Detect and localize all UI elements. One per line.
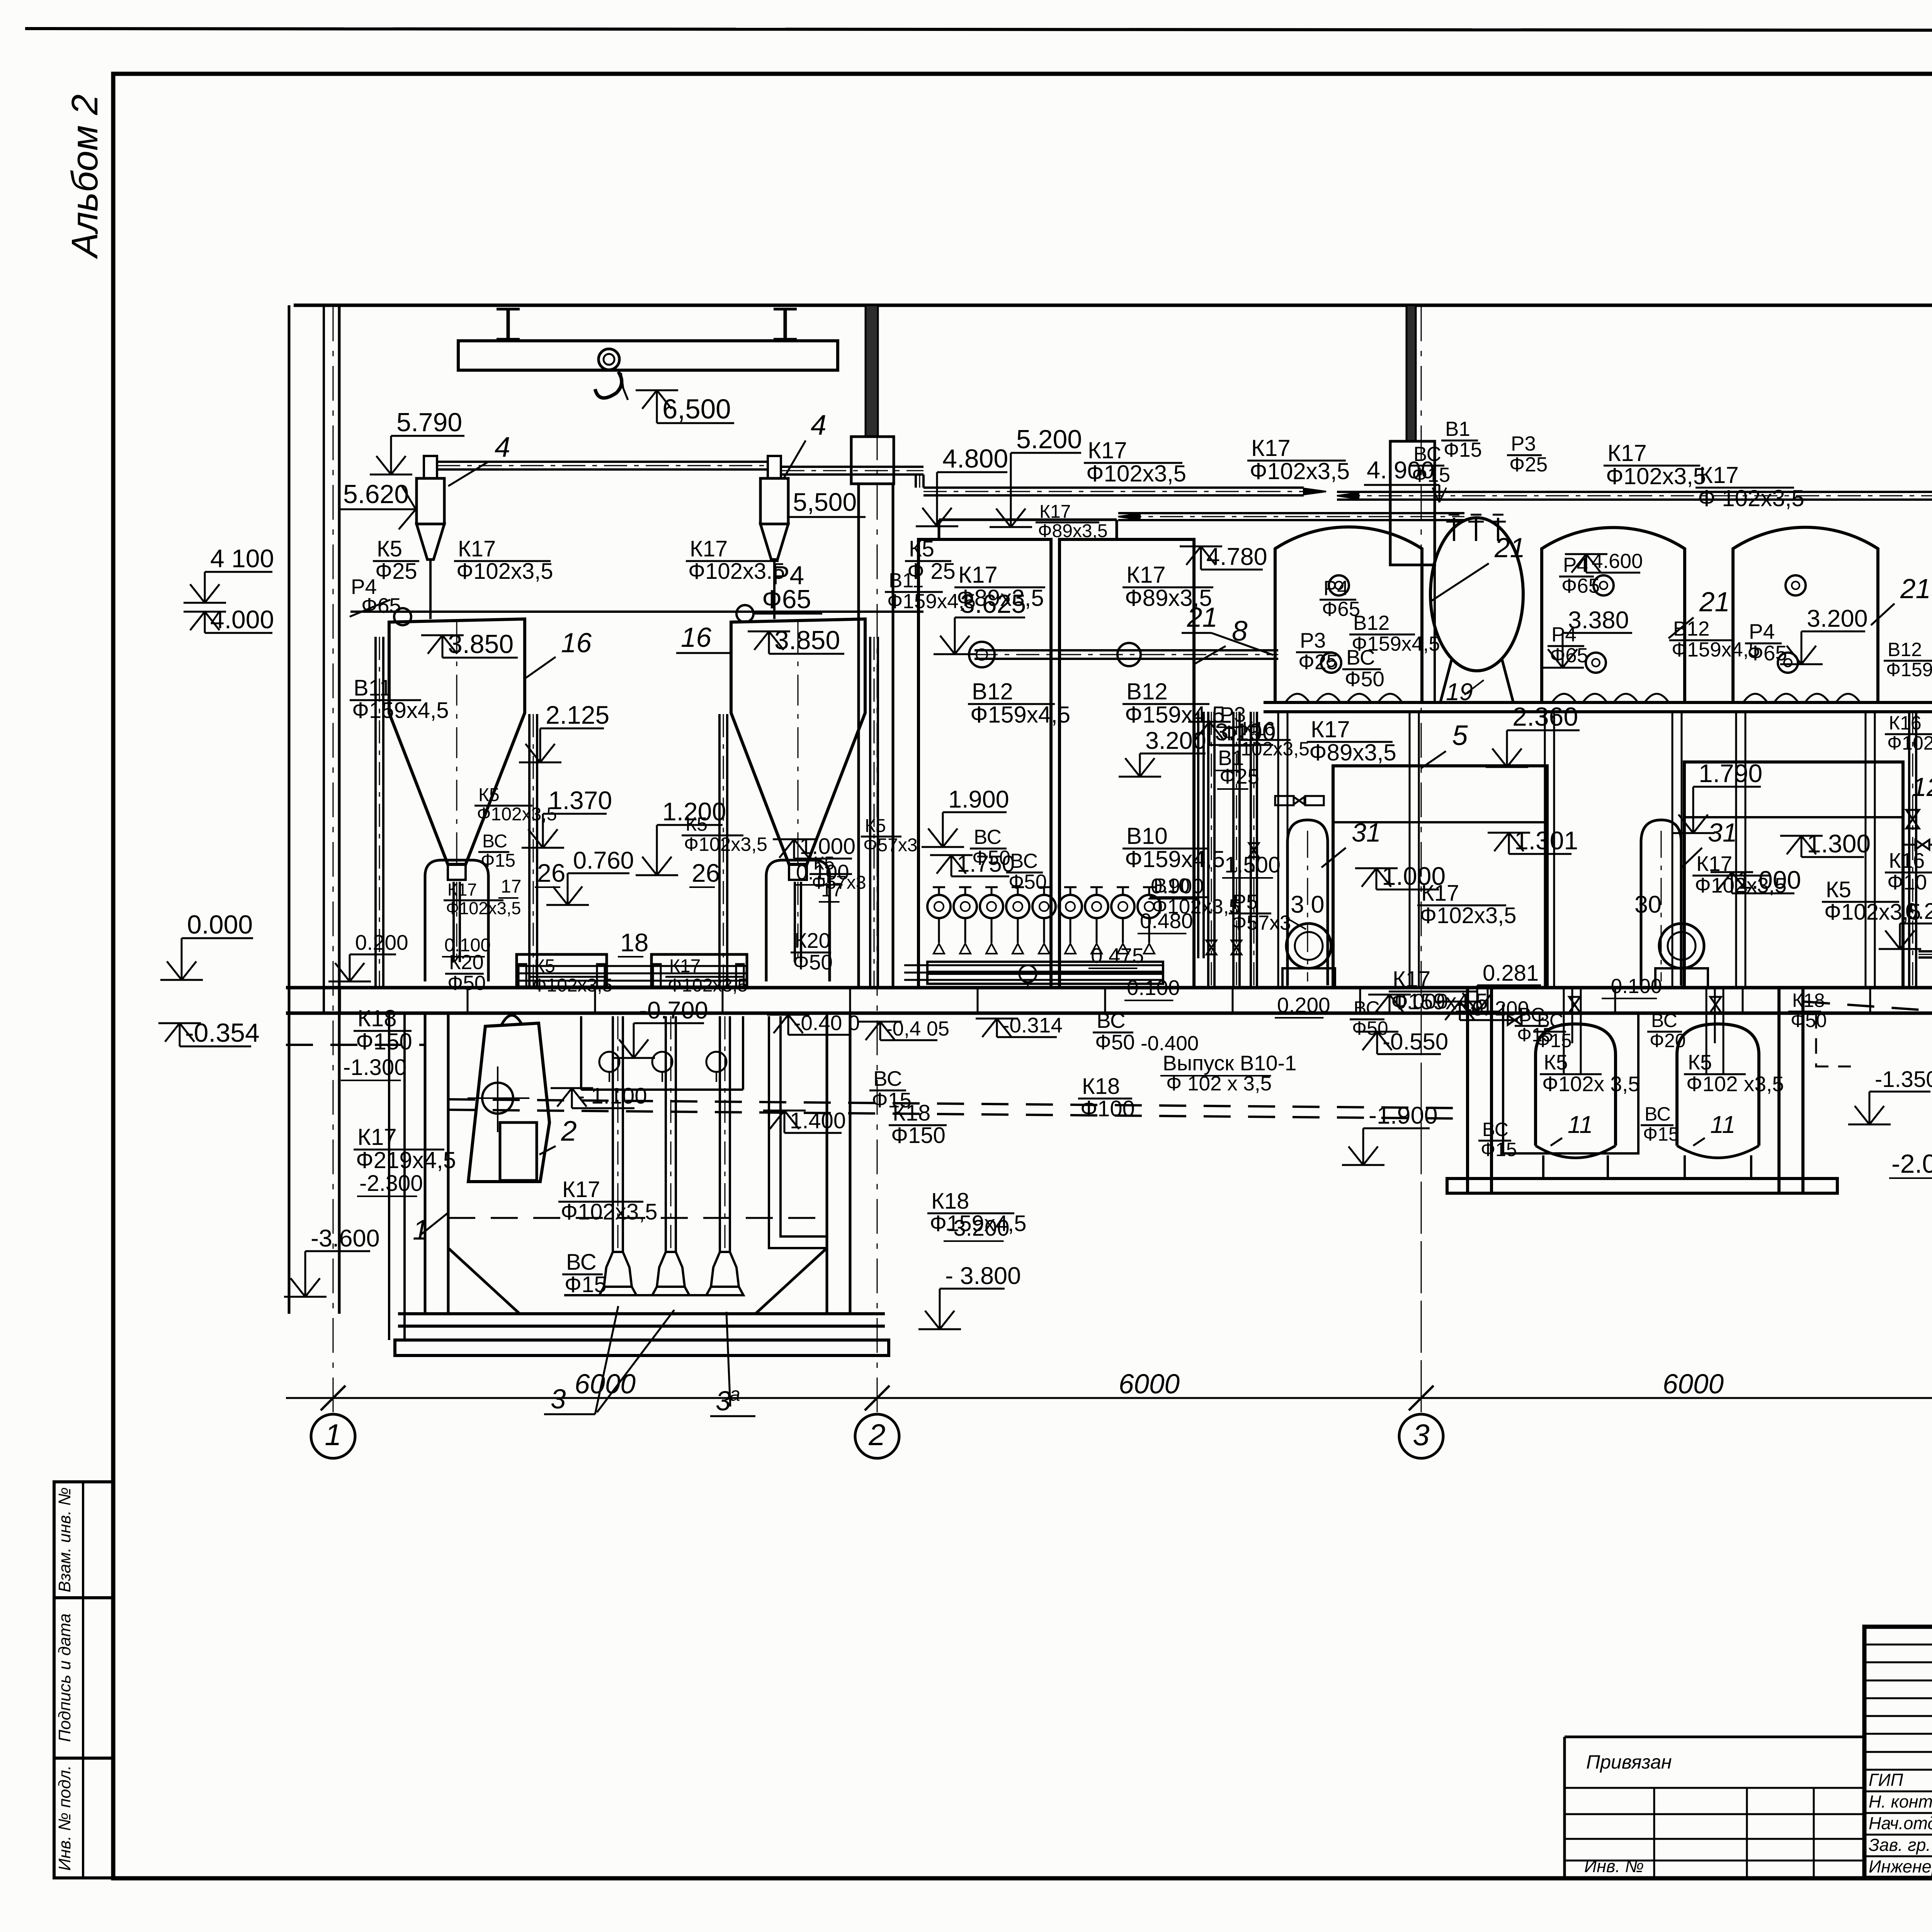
svg-text:Ф159х4,5: Ф159х4,5 [352,698,449,723]
svg-text:Ф102х3,5: Ф102х3,5 [1887,732,1932,754]
riser valves [1906,810,1919,828]
underground tank 11 #1 [1536,1024,1616,1146]
riser beside tank8 [1197,712,1199,958]
risers right of axis4 [1908,712,1910,988]
svg-text:ВС: ВС [1354,997,1380,1019]
svg-text:Ф102х 3,5: Ф102х 3,5 [1542,1072,1640,1096]
svg-text:5: 5 [1452,720,1468,751]
filter tank 21 #1 [1275,527,1422,704]
pipe bundle right [904,964,1163,966]
svg-text:Ф25: Ф25 [1509,453,1548,476]
svg-text:К17: К17 [1699,462,1739,488]
buried line right [1803,1002,1932,1020]
hydro vessel 31 #2 [1641,820,1681,985]
K16 fitting into basin 12 [1915,840,1929,849]
svg-text:Ф50: Ф50 [1095,1030,1135,1054]
svg-text:Ф25: Ф25 [1298,650,1338,674]
axis1 foundation [388,1013,390,1340]
svg-text:-3.200: -3.200 [946,1216,1009,1241]
svg-text:Ф50: Ф50 [1791,1010,1827,1031]
svg-text:3: 3 [716,1386,731,1417]
svg-text:Ф15: Ф15 [1444,439,1482,461]
pit floor lines [564,1294,743,1296]
svg-text:21: 21 [1699,587,1730,617]
svg-text:К5: К5 [478,785,500,805]
tank 11 dip tubes [1563,988,1565,1074]
svg-text:1.900: 1.900 [948,786,1009,813]
crane hangers [507,309,510,339]
K16 inline fittings [1275,796,1294,805]
svg-text:Ф25: Ф25 [375,559,417,584]
svg-text:В12: В12 [1673,617,1709,640]
tank 16 outlet box [789,864,807,880]
settler tank 16 #1 [389,619,525,864]
svg-text:1.370: 1.370 [548,786,612,815]
tank 16 drop pipe [794,882,796,962]
pipe bundle left [517,965,747,967]
nozzles on tank21b dome [1453,518,1455,541]
svg-text:ВС: ВС [1537,1010,1563,1031]
svg-text:Ф89х3,5: Ф89х3,5 [1038,521,1108,541]
floor slab [286,986,1932,990]
svg-text:Ф102х3,5: Ф102х3,5 [684,833,767,855]
tank 8 lip [939,519,1117,521]
svg-text:В11: В11 [889,569,923,592]
svg-text:К17: К17 [1311,716,1350,742]
tank 16 drop pipe [452,882,455,962]
svg-text:К17: К17 [1696,852,1732,876]
svg-text:Ф65: Ф65 [1561,575,1600,597]
tank 11 dip tubes [1706,988,1708,1074]
svg-text:Ф102х3,5: Ф102х3,5 [561,1199,658,1225]
svg-text:Нач.отд.: Нач.отд. [1869,1813,1932,1833]
svg-text:Ф102х3,5: Ф102х3,5 [1086,461,1186,486]
svg-text:Ф150: Ф150 [891,1123,946,1148]
svg-text:ВС: ВС [482,831,507,852]
tank 16 outlet box [448,864,466,880]
svg-text:ГИП: ГИП [1869,1770,1903,1790]
svg-text:Ф50: Ф50 [1345,667,1384,691]
svg-text:К20: К20 [794,929,830,952]
svg-text:1.200: 1.200 [662,797,726,826]
svg-text:4 100: 4 100 [210,544,274,573]
title block small grid [1864,1644,1932,1646]
svg-text:К17: К17 [447,880,477,900]
svg-text:Инв. №: Инв. № [1584,1856,1644,1876]
svg-text:3.200: 3.200 [1807,605,1868,632]
svg-text:Инв. № подл.: Инв. № подл. [55,1765,74,1871]
column axis3 casing [1390,441,1435,565]
svg-text:К17: К17 [1607,440,1647,466]
svg-text:4.800: 4.800 [942,444,1008,473]
title block outline [1864,1627,1932,1878]
hydro vessel 31 #1 [1287,820,1328,985]
svg-text:Ф219х4,5: Ф219х4,5 [356,1147,456,1173]
valves above tanks 11 [1569,997,1580,1012]
axis tick [865,1386,889,1410]
svg-text:-0.700: -0.700 [639,997,708,1024]
svg-text:ВС: ВС [974,826,1002,849]
svg-text:0.281: 0.281 [1905,899,1932,924]
svg-text:6,500: 6,500 [662,394,731,425]
svg-text:Ф89х3,5: Ф89х3,5 [1125,585,1212,611]
svg-text:0.100: 0.100 [444,935,491,956]
svg-text:Ф15: Ф15 [872,1088,912,1112]
svg-text:К16: К16 [1889,712,1922,734]
svg-text:Р4: Р4 [1323,577,1349,600]
riser third axis3 zone [1250,712,1252,988]
svg-text:Ф15: Ф15 [565,1272,607,1297]
svg-text:3 0: 3 0 [1291,891,1325,918]
svg-text:ВС: ВС [873,1066,902,1090]
tank 21 saddle hatch [1285,694,1310,703]
svg-text:Ф15: Ф15 [1643,1123,1679,1145]
tank 21 fittings [1786,575,1806,595]
svg-text:5.620: 5.620 [343,480,409,509]
svg-text:К5: К5 [865,816,886,836]
svg-text:18: 18 [620,928,648,957]
svg-text:1: 1 [325,1418,341,1452]
svg-text:Зав. гр.: Зав. гр. [1869,1835,1931,1855]
svg-text:Ф102х3,5: Ф102х3,5 [456,559,553,584]
svg-text:Взам. инв. №: Взам. инв. № [55,1487,74,1592]
B12 sludge pipe [975,649,1278,651]
tank 16 bottom receiver [425,860,488,981]
middle chamber slab [1447,1179,1837,1193]
svg-text:21: 21 [1900,574,1931,604]
svg-text:Ф159х4,5: Ф159х4,5 [1672,638,1760,661]
buried BC line left [286,1044,425,1046]
svg-text:К5: К5 [377,536,402,561]
suction pipes [612,1016,614,1252]
crane beam [458,341,838,370]
svg-text:К17: К17 [357,1124,397,1150]
hoist hook [595,372,622,398]
box 18a [517,954,607,988]
svg-text:4: 4 [811,410,827,441]
svg-text:ВС: ВС [566,1250,597,1275]
platform legs [1277,712,1279,988]
svg-text:Ф102х3,5: Ф102х3,5 [1695,873,1787,897]
svg-text:3: 3 [1413,1418,1429,1452]
svg-text:2: 2 [561,1116,577,1147]
column axis3 hatched vent [1406,305,1416,441]
left margin stamp boxes [54,1482,113,1598]
svg-text:Ф159х4,5: Ф159х4,5 [1125,846,1225,872]
bottom dimension line [286,1397,1932,1399]
svg-text:0.000: 0.000 [187,910,253,939]
svg-text:К17: К17 [1251,435,1291,461]
svg-text:Ф159х4,5: Ф159х4,5 [1352,633,1440,655]
svg-text:- 3.800: - 3.800 [945,1262,1021,1289]
axis circle 1 [311,1414,355,1458]
svg-text:Ф20: Ф20 [1650,1030,1686,1051]
svg-text:Н. контр.: Н. контр. [1869,1792,1932,1811]
svg-text:11: 11 [1568,1111,1593,1138]
svg-text:26: 26 [537,859,565,887]
svg-text:11: 11 [1710,1111,1735,1138]
gauges small circles floor zone [1019,965,1036,982]
svg-text:Привязан: Привязан [1586,1751,1672,1773]
svg-text:Ф100: Ф100 [1080,1096,1135,1121]
pit gallery frame [580,1016,582,1090]
svg-text:К17: К17 [1393,967,1430,992]
svg-text:К18: К18 [1792,990,1825,1011]
axis circle 3 [1399,1414,1443,1458]
column axis2 corbel [851,437,894,484]
svg-text:К17: К17 [1126,562,1166,588]
svg-text:Р3: Р3 [1300,628,1326,652]
tank 19 legs [1440,659,1452,703]
svg-text:Подпись и дата: Подпись и дата [55,1614,74,1742]
svg-text:5.200: 5.200 [1016,425,1082,454]
below floor K18 bend right of chamber [1816,1013,1851,1066]
svg-text:Ф65: Ф65 [1550,644,1588,667]
svg-text:Ф65: Ф65 [1322,598,1360,621]
axis tick [1409,1386,1434,1410]
svg-text:а: а [730,1383,740,1405]
svg-text:Ф15: Ф15 [1481,1139,1517,1160]
tank 21 saddle hatch [1551,694,1576,703]
pump 30 #2 [1659,923,1704,968]
svg-text:Р4: Р4 [1749,619,1775,643]
tank16 inlet elbows [394,608,411,625]
svg-text:1.400: 1.400 [790,1108,846,1133]
svg-text:Ф 102 х 3,5: Ф 102 х 3,5 [1166,1072,1272,1095]
svg-text:К17: К17 [562,1177,600,1202]
svg-text:-0.400: -0.400 [1141,1032,1199,1055]
column axis2 hatched strip [866,305,878,437]
svg-text:Альбом 2: Альбом 2 [64,94,105,259]
cyclone transfer pipe [437,461,769,463]
svg-text:-1.350: -1.350 [1875,1067,1932,1092]
svg-text:-1.300: -1.300 [343,1055,406,1080]
svg-text:-2.000: -2.000 [1891,1149,1932,1179]
svg-text:К16: К16 [1889,849,1925,872]
pump 30 #1 [1286,923,1331,968]
dosing tank 19 [1430,518,1523,671]
svg-text:1.790: 1.790 [1699,759,1762,787]
svg-text:К17: К17 [458,536,496,561]
BC loop piping [1503,1005,1638,1153]
filter tank 21 #3 [1733,527,1878,704]
svg-text:В11: В11 [354,675,392,701]
svg-text:-3.600: -3.600 [311,1225,380,1252]
svg-text:6000: 6000 [1119,1369,1180,1400]
svg-text:26: 26 [692,859,720,887]
svg-text:Инженер: Инженер [1869,1857,1932,1876]
wall axis1 [288,305,291,1013]
svg-text:4. 900: 4. 900 [1367,457,1434,484]
svg-text:Ф10 2х3,5: Ф10 2х3,5 [1887,870,1932,894]
axis centerlines below floor [1421,988,1422,1395]
svg-text:Ф65: Ф65 [1747,641,1787,665]
svg-text:Ф150: Ф150 [356,1029,412,1054]
svg-text:К5: К5 [909,536,934,561]
svg-text:5,500: 5,500 [793,488,857,516]
K17 lower pipe segment C [1118,512,1464,514]
svg-text:-2.300: -2.300 [359,1171,423,1196]
pump 2 body [468,1023,549,1182]
svg-text:ВС: ВС [1645,1103,1671,1125]
svg-text:-1.900: -1.900 [1369,1102,1438,1129]
svg-text:3.850: 3.850 [448,629,514,659]
svg-text:Ф 102х3,5: Ф 102х3,5 [1698,485,1804,511]
tank 21 fittings [1594,575,1614,595]
svg-text:30: 30 [1634,891,1662,918]
left pit floor [398,1312,885,1315]
axis centerlines [333,305,334,1412]
platform deck [1264,701,1932,704]
svg-text:Ф50: Ф50 [793,950,833,974]
svg-text:К5: К5 [1826,877,1851,902]
svg-text:2.125: 2.125 [546,701,609,729]
svg-text:Ф50: Ф50 [447,972,486,995]
svg-text:Ф102х3,5: Ф102х3,5 [446,898,521,918]
svg-text:В10: В10 [1126,823,1168,849]
svg-text:Ф102х3.5: Ф102х3.5 [688,559,785,584]
underground tank 11 #2 [1677,1024,1759,1146]
svg-text:0.200: 0.200 [355,930,408,954]
svg-text:ВС: ВС [1651,1010,1677,1031]
svg-text:Ф159х4,5: Ф159х4,5 [970,702,1070,728]
svg-text:3.380: 3.380 [1568,607,1629,634]
settler tank 16 #2 [731,619,865,864]
K17 top pipe segment A [923,486,1304,489]
cyclone 4 #2 [760,478,788,524]
box 18b [651,954,747,988]
svg-text:ВС: ВС [1482,1119,1509,1140]
svg-text:17: 17 [501,876,521,897]
svg-text:0.760: 0.760 [573,847,634,874]
svg-text:16: 16 [561,628,592,658]
tank 16 bottom receiver [766,860,830,981]
buried K18 main [448,1099,1468,1108]
K17 top pipe segment B [1337,491,1932,493]
svg-text:К5: К5 [1688,1050,1712,1074]
svg-text:Ф65: Ф65 [361,594,401,617]
middle chamber walls [1466,988,1469,1192]
sheet top edge line [25,29,1932,31]
svg-text:0.480: 0.480 [1140,909,1193,933]
svg-text:Ф15: Ф15 [481,850,515,871]
svg-text:-0.100: -0.100 [1604,975,1662,998]
basin 12 [1684,762,1903,988]
svg-text:Ф102 х3,5: Ф102 х3,5 [1686,1072,1784,1096]
valve manifold B10 [927,895,951,918]
svg-text:Ф15: Ф15 [1536,1030,1572,1051]
filter tank 21 #2 [1542,527,1685,704]
cyclone 4 #1 [417,478,444,524]
svg-text:3.850: 3.850 [774,626,840,655]
tank 8 #2 [1060,539,1194,988]
pipe cyclone2 to wall [781,466,923,468]
svg-text:К17: К17 [958,562,998,588]
elbow down [915,474,917,488]
svg-text:5.790: 5.790 [396,408,462,437]
svg-text:Ф89х3,5: Ф89х3,5 [957,585,1044,611]
svg-text:К5: К5 [1544,1050,1568,1074]
svg-text:Ф102х3,5: Ф102х3,5 [1250,458,1350,484]
svg-text:Ф102х3,5: Ф102х3,5 [668,975,748,996]
svg-text:В12: В12 [972,679,1013,704]
svg-text:Ф25: Ф25 [1221,721,1261,745]
svg-text:К17: К17 [1088,437,1127,463]
svg-text:3: 3 [551,1384,566,1415]
manifold headers [927,962,1163,972]
svg-text:0.200: 0.200 [1277,993,1330,1017]
roof slab [294,304,1932,307]
svg-text:2: 2 [868,1418,885,1452]
hoist trolley [599,349,619,370]
svg-text:К18: К18 [1082,1074,1120,1099]
svg-text:Ф65: Ф65 [762,585,811,614]
left pit foundation slab [395,1340,889,1355]
svg-text:К17: К17 [669,956,701,976]
K17 pipe into room [1918,950,1932,952]
svg-text:Ф57х3: Ф57х3 [863,835,918,855]
svg-text:16: 16 [681,622,711,653]
P4 distribution pipe [350,611,923,613]
svg-text:Ф102х3,5: Ф102х3,5 [1606,463,1706,489]
svg-text:Р3: Р3 [1511,432,1536,455]
svg-text:-0.314: -0.314 [1002,1013,1063,1037]
svg-text:0.900: 0.900 [1151,874,1204,898]
column axis2 body [857,484,860,988]
tank 21 saddle hatch [1743,694,1767,703]
axis tick [321,1386,345,1410]
tank 21 fittings [1329,575,1349,595]
axis circle 2 [855,1414,899,1458]
K18 bend pipe [769,1016,827,1248]
svg-text:17: 17 [821,879,843,901]
svg-text:Ф89х3,5: Ф89х3,5 [1309,740,1396,765]
svg-text:К18: К18 [931,1189,969,1214]
svg-text:К17: К17 [1039,502,1071,522]
left pit walls [424,1013,427,1314]
risers near axis3 P3 B1 [1207,712,1209,988]
svg-text:К17: К17 [1421,881,1459,906]
svg-text:Ф102х3,5: Ф102х3,5 [532,975,612,996]
svg-text:12: 12 [1912,772,1932,802]
svg-text:0.100: 0.100 [1127,976,1180,1000]
riser small valves [1206,940,1216,954]
svg-text:В12: В12 [1126,679,1168,704]
svg-text:Ф159х4,5: Ф159х4,5 [1886,659,1932,680]
svg-text:2.360: 2.360 [1512,702,1578,731]
tank16 flank pipes [374,637,377,988]
svg-text:К17: К17 [690,536,728,561]
svg-text:В12: В12 [1888,639,1922,660]
basin 5 [1333,766,1547,988]
svg-text:Ф102х3,5: Ф102х3,5 [1420,903,1517,928]
svg-text:0.475: 0.475 [1091,944,1144,968]
svg-text:6000: 6000 [1663,1369,1724,1400]
svg-text:К5: К5 [534,956,555,976]
tank 8 #1 [918,539,1051,988]
svg-text:ВС: ВС [1097,1009,1126,1032]
svg-text:К18: К18 [357,1005,397,1031]
svg-text:4: 4 [495,432,510,463]
svg-text:0.281: 0.281 [1483,961,1539,986]
svg-text:В1: В1 [1445,418,1470,440]
privyazan annex [1565,1736,1864,1738]
